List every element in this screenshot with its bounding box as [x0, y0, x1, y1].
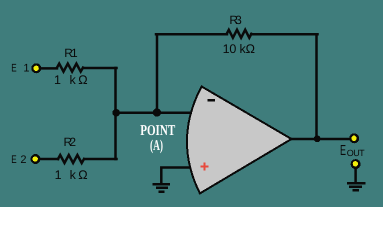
- resistor R1: [57, 64, 83, 72]
- wire op-amp non-inverting to ground: [161, 168, 191, 184]
- svg-text:2: 2: [20, 154, 26, 166]
- svg-text:1 kΩ: 1 kΩ: [55, 168, 88, 182]
- terminal Eout ground side: [351, 159, 361, 169]
- svg-text:1: 1: [23, 63, 29, 75]
- svg-text:POINT: POINT: [140, 123, 175, 139]
- resistor R3: [227, 30, 252, 38]
- svg-text:R1: R1: [64, 46, 78, 60]
- resistor R2: [58, 155, 84, 163]
- op-amp U1: [187, 87, 292, 194]
- ground (op-amp + input): [153, 184, 170, 192]
- label E2: [11, 154, 26, 166]
- svg-text:R2: R2: [64, 135, 77, 149]
- wire R1 to node: [83, 67, 116, 70]
- label E1: [11, 63, 29, 75]
- svg-text:E: E: [11, 63, 16, 75]
- svg-text:(A): (A): [150, 138, 163, 154]
- svg-text:10 kΩ: 10 kΩ: [223, 42, 255, 56]
- wire vertical E1/E2 join: [114, 68, 117, 159]
- terminal E1: [31, 63, 41, 73]
- wire feedback top right: [251, 33, 317, 36]
- wire E2 to R2: [40, 158, 59, 161]
- wire E1 to R1: [41, 67, 58, 70]
- wire feedback vertical left: [156, 34, 159, 113]
- node A junction dot left: [112, 109, 120, 117]
- svg-text:E: E: [340, 143, 346, 159]
- label Eout: [340, 143, 365, 159]
- op-amp minus sign: [207, 99, 215, 101]
- terminal E2: [31, 154, 41, 164]
- terminal Eout: [349, 133, 359, 143]
- ground (output terminal): [347, 183, 365, 190]
- wire Eout lower terminal to ground: [354, 168, 357, 183]
- node A junction dot right: [153, 108, 161, 116]
- wire feedback top left: [156, 33, 227, 36]
- svg-text:OUT: OUT: [347, 148, 365, 158]
- svg-text:R3: R3: [229, 13, 242, 27]
- wire R2 to node: [84, 158, 116, 161]
- svg-text:1 kΩ: 1 kΩ: [54, 73, 88, 87]
- wire node A to op-amp inverting input: [116, 112, 191, 115]
- output junction dot: [314, 135, 321, 142]
- wire op-amp output: [291, 138, 351, 141]
- op-amp plus sign: [201, 162, 209, 170]
- wire feedback vertical right: [315, 34, 318, 139]
- svg-text:E: E: [11, 154, 16, 166]
